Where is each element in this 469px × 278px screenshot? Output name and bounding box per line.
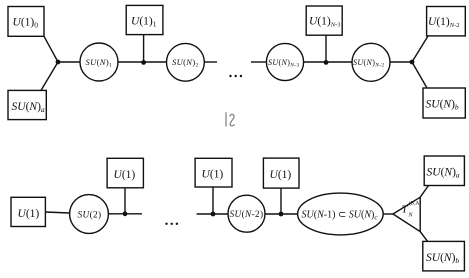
svg-text:U(1): U(1) [18,208,40,220]
svg-text:SU(2): SU(2) [78,209,102,220]
svg-text:SU(N)a: SU(N)a [427,167,460,180]
svg-text:SU(N)1: SU(N)1 [86,57,113,69]
svg-text:SU(N)b: SU(N)b [426,99,459,112]
svg-text:T: T [402,204,409,216]
svg-text:U(1): U(1) [270,169,292,181]
svg-text:SU(N-1) ⊂ SU(N)c: SU(N-1) ⊂ SU(N)c [302,210,379,222]
svg-text:U(1): U(1) [114,169,136,181]
svg-text:(B,A): (B,A) [409,200,421,207]
svg-text:SU(N)2: SU(N)2 [172,57,199,69]
svg-text:SU(N)b: SU(N)b [426,252,459,265]
svg-text:SU(N)a: SU(N)a [12,101,45,114]
svg-text:SU(N-2): SU(N-2) [230,209,264,220]
svg-text:U(1): U(1) [202,169,224,181]
